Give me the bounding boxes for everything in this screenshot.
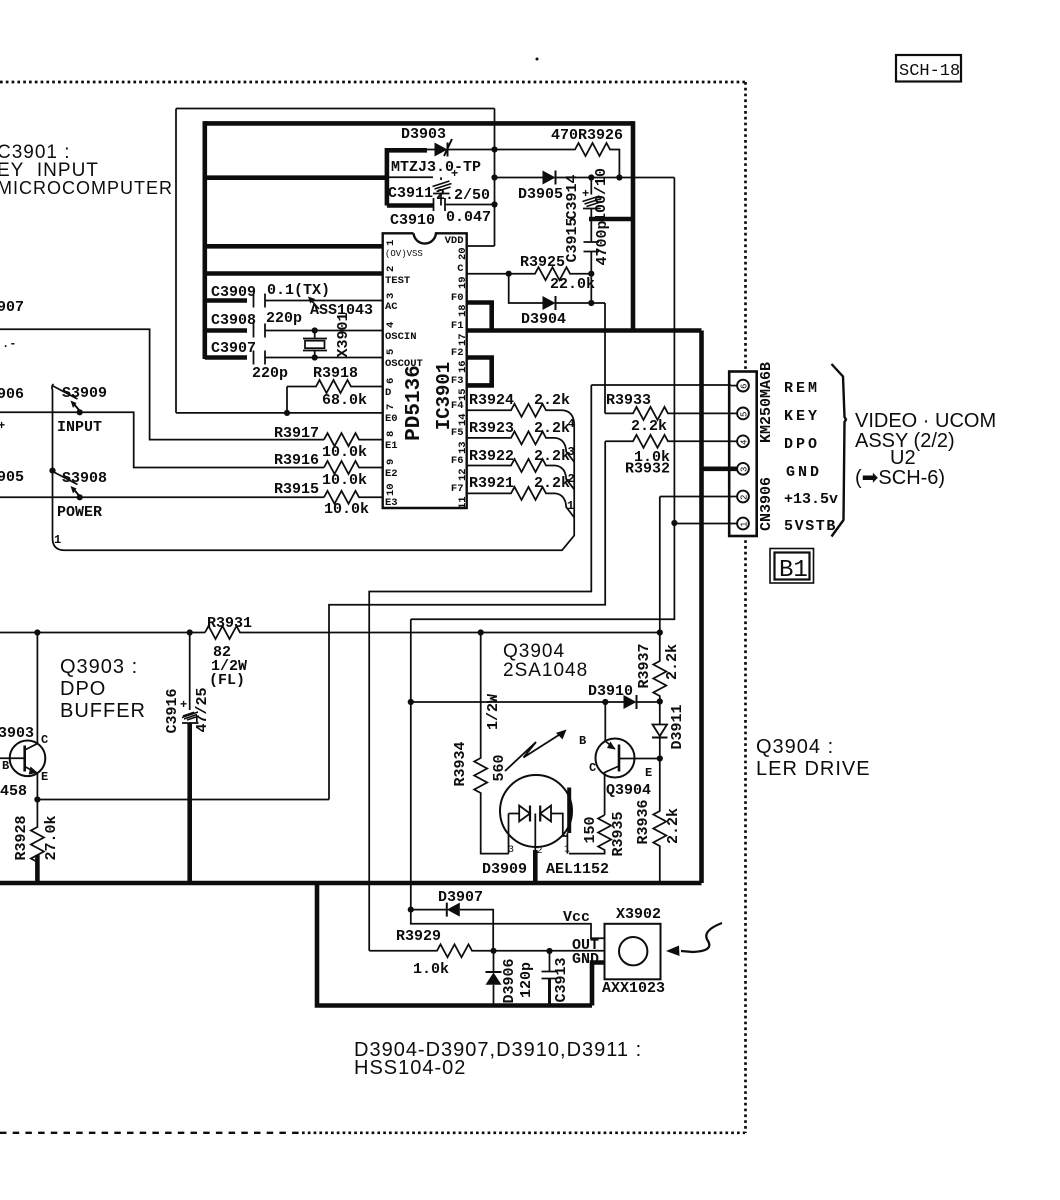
- svg-text:1: 1: [564, 845, 570, 856]
- svg-text:4: 4: [740, 440, 750, 445]
- svg-text:D3910: D3910: [588, 683, 633, 700]
- svg-text:R3925: R3925: [520, 254, 565, 271]
- svg-text:KEY: KEY: [784, 408, 820, 425]
- dotted border top: [0, 81, 745, 84]
- svg-text:E1: E1: [385, 440, 398, 452]
- svg-text:D3906: D3906: [501, 958, 518, 1003]
- heavy key bus: branch to MTZJ box: [205, 175, 387, 180]
- wire: VDD vertical at x=494.5: [494, 109, 496, 247]
- node: junction VDD/C3910 row: [491, 201, 497, 207]
- cut label 907: [0, 299, 24, 316]
- diode D3910: [588, 683, 660, 709]
- node: junction D3907 anode: [408, 907, 414, 913]
- svg-text:LER DRIVE: LER DRIVE: [756, 758, 871, 780]
- svg-text:+: +: [0, 419, 5, 433]
- svg-text:2.2k: 2.2k: [534, 448, 570, 465]
- connector pin 5 KEY: [731, 408, 750, 420]
- net name REM: [784, 380, 820, 397]
- svg-text:470R3926: 470R3926: [551, 127, 623, 144]
- svg-text:R3935: R3935: [610, 811, 627, 856]
- svg-text:X3902: X3902: [616, 906, 661, 923]
- svg-text:10.0k: 10.0k: [324, 501, 369, 518]
- svg-text:905: 905: [0, 469, 24, 486]
- svg-text:2.2k: 2.2k: [534, 420, 570, 437]
- wire: OUT row to X3902: [494, 950, 605, 952]
- connector pin 1 5VSTB: [731, 518, 750, 530]
- bottom note D3904-D3907,D3910,D3911 : HSS104-02: [354, 1039, 642, 1079]
- heavy wire: C3914 negative to GND vertical: [589, 217, 633, 222]
- capacitor C3913 120p: [518, 951, 570, 1006]
- svg-text:INPUT: INPUT: [57, 419, 102, 436]
- svg-text:R3933: R3933: [606, 392, 651, 409]
- IC3901 left pin names: [385, 249, 423, 509]
- diode D3907 (cathode left): [411, 889, 493, 951]
- svg-text:C3909: C3909: [211, 284, 256, 301]
- svg-text:KM250MA6B: KM250MA6B: [758, 362, 775, 443]
- svg-text:12: 12: [457, 468, 469, 481]
- heavy ground bus drop and lower run: [317, 883, 592, 1006]
- svg-text:19: 19: [457, 276, 469, 289]
- dotted border bottom: [0, 1132, 745, 1134]
- svg-text:R3918: R3918: [313, 365, 358, 382]
- svg-text:1: 1: [54, 533, 61, 547]
- wire: thin box left edge down to pin E0 row: [175, 109, 177, 413]
- wire: R3925 to D3904 vertical: [590, 274, 592, 303]
- capacitor C3907 220p: [211, 340, 384, 382]
- capacitor C3910 0.047: [390, 198, 495, 229]
- wire: 5VSTB stub to pin 1: [674, 523, 731, 525]
- node: junction pin C/R3925/D3904: [506, 271, 512, 277]
- svg-text:D3907: D3907: [438, 889, 483, 906]
- wire: LER box left edge (5VSTB feed): [410, 619, 412, 909]
- capacitor C3909 0.1(TX): [211, 282, 384, 308]
- svg-text:OSCOUT: OSCOUT: [385, 358, 423, 370]
- node: junction D3910/R3937/D3911: [657, 698, 663, 704]
- svg-text:D3911: D3911: [669, 704, 686, 749]
- svg-text:18: 18: [457, 304, 469, 317]
- wire: 5VSTB vertical from D3905 row: [673, 178, 675, 524]
- svg-text:+13.5v: +13.5v: [784, 491, 838, 508]
- svg-text:GND: GND: [572, 951, 599, 968]
- wire: VDD pin 20 stub: [467, 245, 495, 247]
- svg-text:R3915: R3915: [274, 481, 319, 498]
- svg-text:POWER: POWER: [57, 504, 102, 521]
- transistor Q3903 2SC1458: [0, 725, 48, 800]
- svg-text:S3909: S3909: [62, 385, 107, 402]
- svg-text:HSS104-02: HSS104-02: [354, 1057, 466, 1079]
- svg-text:1: 1: [385, 240, 397, 246]
- heavy wire: pin F2 to F3 ground U: [467, 358, 492, 386]
- svg-text:D3904: D3904: [521, 311, 566, 328]
- heavy key bus: stub to C3907: [205, 355, 247, 360]
- svg-text:R3929: R3929: [396, 928, 441, 945]
- heavy key bus: left vertical: [203, 121, 208, 359]
- svg-text:E: E: [645, 766, 652, 780]
- resistor R3932 1.0k on DPO row: [605, 435, 731, 478]
- capacitor C3914 100/10 electrolytic: [564, 168, 610, 222]
- crystal X3901 ASS1043: [303, 297, 373, 361]
- cut label plus: [0, 419, 5, 433]
- IC3901 right pin numbers 20-11: [457, 247, 469, 509]
- stray scan dot: [536, 58, 539, 61]
- svg-text:TEST: TEST: [385, 275, 410, 287]
- svg-text:AEL1152: AEL1152: [546, 861, 609, 878]
- svg-text:R3917: R3917: [274, 425, 319, 442]
- svg-text:150: 150: [582, 816, 599, 843]
- switch S3909 INPUT: [53, 385, 107, 436]
- svg-text:E3: E3: [385, 497, 398, 509]
- node: junction D3904/R3925 right: [588, 300, 594, 306]
- connector pin 2 +13.5v: [731, 491, 750, 503]
- svg-text:6: 6: [740, 384, 750, 389]
- resistor R3931 82 1/2W (FL): [205, 615, 660, 689]
- wire: S3907 key line entering left: [0, 329, 324, 439]
- svg-text:F7: F7: [451, 483, 464, 495]
- switch common vertical with hook: [52, 384, 54, 538]
- node: junction D3910/base row: [602, 699, 608, 705]
- svg-text:PD5136: PD5136: [403, 365, 426, 441]
- wire: 5VSTB down to LER box top: [411, 523, 675, 619]
- svg-text:.-: .-: [2, 337, 16, 351]
- svg-text:1.0k: 1.0k: [413, 961, 449, 978]
- diode D3905: [495, 171, 675, 204]
- net name KEY: [784, 408, 820, 425]
- wire: D3910 row: [411, 701, 624, 703]
- svg-text:C: C: [457, 263, 464, 275]
- svg-text:220p: 220p: [266, 310, 302, 327]
- svg-text:4: 4: [385, 322, 397, 328]
- node: junction R3931/R3934: [478, 629, 484, 635]
- svg-text:C3915: C3915: [564, 217, 581, 262]
- label MTZJ3.0-TP: [391, 159, 481, 176]
- svg-text:2.2k: 2.2k: [665, 808, 682, 844]
- wire: REM net routing to lower left: [369, 385, 591, 951]
- svg-text:F6: F6: [451, 455, 464, 467]
- svg-text:E: E: [41, 770, 48, 784]
- wire: 5VSTB down to D3907 and Vcc: [411, 910, 605, 939]
- svg-text:22.0k: 22.0k: [550, 276, 595, 293]
- wire: IC pin 19 C row: [467, 273, 509, 275]
- svg-text:F0: F0: [451, 292, 464, 304]
- heavy key bus: branch to pin 1 (OV)VSS: [205, 244, 384, 249]
- svg-text:458: 458: [0, 783, 27, 800]
- svg-text:10.0k: 10.0k: [322, 444, 367, 461]
- svg-text:10.0k: 10.0k: [322, 472, 367, 489]
- svg-text:D: D: [385, 387, 391, 399]
- heavy key bus: branch to pin 2 TEST: [205, 271, 384, 276]
- resistor R3916 10.0k on pin E2: [274, 452, 384, 489]
- svg-text:0.047: 0.047: [446, 209, 491, 226]
- wire: R3918 branch vertical: [286, 387, 288, 413]
- svg-text:3: 3: [508, 845, 514, 856]
- node: junction 5VSTB pin 1: [671, 520, 677, 526]
- resistor R3928 27.0k vertical: [13, 800, 60, 863]
- svg-text:2SA1048: 2SA1048: [503, 660, 588, 681]
- svg-text:MTZJ3.0-TP: MTZJ3.0-TP: [391, 159, 481, 176]
- switch S3908 POWER: [53, 470, 107, 521]
- svg-text:220p: 220p: [252, 365, 288, 382]
- heavy key bus: stub to C3908: [205, 328, 247, 333]
- node: junction OUT/C3913: [546, 948, 552, 954]
- svg-text:F1: F1: [451, 320, 464, 332]
- svg-text:F3: F3: [451, 375, 464, 387]
- svg-text:1: 1: [740, 522, 750, 527]
- svg-text:+: +: [451, 167, 458, 181]
- svg-text:OSCIN: OSCIN: [385, 331, 417, 343]
- node: junction VDD/D3905 row: [491, 174, 497, 180]
- svg-text:47/25: 47/25: [194, 687, 211, 732]
- svg-text:R3921: R3921: [469, 475, 514, 492]
- node: junction switch chain S3908: [49, 468, 55, 474]
- cut label 905: [0, 469, 24, 486]
- svg-text:17: 17: [457, 333, 469, 346]
- label KM250MA6B rotated: [758, 362, 775, 443]
- resistor R3925 22.0k: [509, 254, 595, 293]
- wire: +13.5v net from connector: [660, 496, 731, 498]
- capacitor C3911 2.2/50 electrolytic: [388, 167, 490, 206]
- svg-text:R3936: R3936: [635, 799, 652, 844]
- resistor R3922 2.2k on pin F6: [467, 445, 575, 490]
- svg-text:2.2k: 2.2k: [534, 392, 570, 409]
- diode D3906 vertical: [486, 951, 519, 1006]
- svg-text:C3913: C3913: [553, 957, 570, 1002]
- svg-text:DPO: DPO: [784, 436, 820, 453]
- connector pin 4 DPO: [731, 435, 750, 447]
- svg-text:5: 5: [740, 412, 750, 417]
- svg-text:3: 3: [740, 467, 750, 472]
- svg-text:R3924: R3924: [469, 392, 514, 409]
- connector CN3906 KM250MA6B body: [729, 372, 757, 537]
- svg-text:16: 16: [457, 360, 469, 373]
- IC3901 right pin names: [445, 235, 465, 495]
- svg-text:MICROCOMPUTER: MICROCOMPUTER: [0, 178, 173, 198]
- cut label 906: [0, 386, 24, 403]
- node: junction D3905/C3914: [588, 174, 594, 180]
- svg-text:BUFFER: BUFFER: [60, 700, 146, 722]
- wire: zener row inside box: [389, 176, 433, 178]
- svg-text:CN3906: CN3906: [758, 477, 775, 531]
- svg-text:VDD: VDD: [445, 235, 464, 247]
- resistor R3918 68.0k to pin D: [287, 365, 384, 409]
- wire: pin E0 row: [176, 412, 384, 414]
- svg-text:5VSTB: 5VSTB: [784, 518, 837, 535]
- resistor R3924 2.2k on pin F4: [53, 392, 575, 550]
- svg-text:2: 2: [568, 472, 575, 486]
- svg-text:C3908: C3908: [211, 312, 256, 329]
- svg-text:2.2/50: 2.2/50: [436, 187, 490, 204]
- svg-text:C3907: C3907: [211, 340, 256, 357]
- svg-text:R3934: R3934: [452, 741, 469, 786]
- svg-text:R3922: R3922: [469, 448, 514, 465]
- heavy MTZJ label box: bottom: [387, 203, 433, 208]
- svg-text:VIDEO · UCOM: VIDEO · UCOM: [855, 410, 996, 432]
- wire: thin box top edge (VDD net): [176, 108, 495, 110]
- svg-text:1: 1: [567, 499, 574, 513]
- svg-text:GND: GND: [786, 464, 822, 481]
- VIDEO UCOM ASSY destination text: [855, 410, 996, 489]
- wire: KEY net vertical D3904 to R3933: [604, 303, 606, 413]
- svg-text:R3923: R3923: [469, 420, 514, 437]
- node: junction Q3903 emitter/R3928: [34, 796, 40, 802]
- svg-text:8: 8: [385, 431, 397, 437]
- svg-text:D3909: D3909: [482, 861, 527, 878]
- svg-text:AXX1023: AXX1023: [602, 980, 665, 997]
- svg-text:5: 5: [385, 349, 397, 355]
- resistor R3915 10.0k on pin E3: [274, 481, 384, 518]
- svg-text:Q3904: Q3904: [503, 641, 565, 662]
- svg-text:X3901: X3901: [335, 312, 352, 357]
- heavy key bus: stub to C3909: [205, 298, 247, 303]
- heavy key bus: top line to GND vertical: [205, 121, 633, 126]
- resistor R3929 1.0k on OUT row: [369, 928, 493, 978]
- node: junction left edge / D3910 row: [408, 699, 414, 705]
- heavy ground bus bottom left: [0, 881, 702, 886]
- heavy wire: pin F1 GND line to connector column: [467, 328, 702, 333]
- svg-text:68.0k: 68.0k: [322, 392, 367, 409]
- svg-text:AC: AC: [385, 301, 398, 313]
- heavy wire: C3916 bottom to ground bus: [187, 724, 192, 884]
- svg-text:3903: 3903: [0, 725, 34, 742]
- svg-text:R3916: R3916: [274, 452, 319, 469]
- net name +13.5v: [784, 491, 838, 508]
- svg-text:2.2k: 2.2k: [664, 644, 681, 680]
- heavy wire: D3909 pin 2 to ground bus: [534, 814, 536, 884]
- node: junction R3925/C3915: [588, 271, 594, 277]
- svg-text:F5: F5: [451, 427, 464, 439]
- wire: Q3903 emitter row to DPO vertical: [37, 799, 329, 801]
- heavy wire: X3902 GND pin to ground: [592, 963, 605, 1006]
- svg-text:13: 13: [457, 441, 469, 454]
- wire bundle numeral 1 at right bend: [567, 499, 574, 513]
- resistor R3937 2.2k vertical: [636, 633, 681, 702]
- capacitor C3915 4700p: [564, 217, 611, 273]
- resistor R3934 560 1/2W vertical: [452, 633, 509, 854]
- node: junction R3931/C3916: [187, 629, 193, 635]
- svg-text:+: +: [180, 698, 187, 712]
- svg-text:10: 10: [385, 483, 397, 496]
- net name 5VSTB: [784, 518, 837, 535]
- cut label minus: [2, 337, 16, 351]
- svg-text:B: B: [2, 759, 9, 773]
- connector pin 6 REM: [731, 380, 750, 392]
- svg-text:4700p: 4700p: [594, 220, 611, 265]
- svg-text:3: 3: [568, 445, 575, 459]
- title text Q3904 LER DRIVE: [756, 736, 871, 780]
- resistor R3936 2.2k vertical: [635, 759, 682, 884]
- svg-text:R3937: R3937: [636, 643, 653, 688]
- wire: INPUT key line to R3916: [0, 412, 324, 467]
- svg-text:560: 560: [491, 754, 508, 781]
- svg-text:B1: B1: [779, 557, 808, 584]
- svg-text:3: 3: [385, 293, 397, 299]
- svg-text:+: +: [582, 187, 589, 201]
- svg-text:E0: E0: [385, 413, 398, 425]
- svg-text:REM: REM: [784, 380, 820, 397]
- node: junction VDD/D3903 row: [491, 146, 497, 152]
- svg-text:100/10: 100/10: [593, 168, 610, 222]
- svg-text:C3914: C3914: [564, 174, 581, 219]
- IR receiver X3902 AXX1023: [563, 906, 665, 997]
- svg-text:Q3904 :: Q3904 :: [756, 736, 834, 758]
- wire: +13.5v vertical to R3931 row: [659, 497, 661, 633]
- capacitor C3916 47/25 electrolytic: [164, 687, 211, 733]
- svg-text:D3903: D3903: [401, 126, 446, 143]
- svg-text:907: 907: [0, 299, 24, 316]
- wire: POWER key line to R3915: [0, 496, 324, 498]
- svg-text:4: 4: [568, 417, 575, 431]
- svg-text:U2: U2: [890, 447, 916, 469]
- IR wave arrow into X3902: [666, 923, 722, 956]
- heavy MTZJ label box: left: [385, 148, 390, 206]
- title text IC3901 KEY INPUT MICROCOMPUTER (cut at left edge): [0, 142, 173, 198]
- svg-text:C3910: C3910: [390, 212, 435, 229]
- wire bundle numeral 1 at left bend: [54, 533, 61, 547]
- svg-text:B: B: [579, 734, 586, 748]
- svg-text:F2: F2: [451, 347, 464, 359]
- svg-text:C3911: C3911: [388, 185, 433, 202]
- wire: REM row from connector: [591, 384, 731, 386]
- svg-text:(OV)VSS: (OV)VSS: [385, 249, 423, 259]
- label CN3906 rotated: [758, 477, 775, 531]
- svg-text:Q3904: Q3904: [606, 782, 651, 799]
- diode D3904: [509, 274, 605, 328]
- svg-text:C: C: [41, 733, 48, 747]
- node: junction E0/R3918: [284, 410, 290, 416]
- heavy wire: GND vertical from top bus: [631, 121, 636, 330]
- dotted border right: [744, 82, 747, 1133]
- svg-text:(FL): (FL): [209, 672, 245, 689]
- svg-text:1/2W: 1/2W: [485, 694, 502, 730]
- node: junction Q3904 emitter/D3911/R3936: [657, 755, 663, 761]
- B1 grid label double box: [770, 549, 814, 585]
- title text Q3904 2SA1048: [503, 641, 588, 681]
- resistor R3935 150 vertical: [569, 811, 627, 856]
- svg-text:11: 11: [457, 496, 469, 509]
- svg-text:IC3901: IC3901: [433, 362, 455, 430]
- title text Q3903 DPO BUFFER: [60, 656, 146, 722]
- svg-text:S3908: S3908: [62, 470, 107, 487]
- LED array D3909 AEL1152 circle: [482, 775, 609, 878]
- wire: Q3903 collector vertical: [36, 633, 38, 745]
- connector pin 3 GND: [702, 463, 750, 475]
- resistor R3926 470: [495, 127, 624, 178]
- wire: DPO net routing to Q3903 emitter: [329, 441, 605, 799]
- transistor Q3904 2SA1048: [579, 702, 660, 815]
- wire: C3916 vertical from R3931 row: [189, 633, 191, 711]
- svg-text:2: 2: [740, 495, 750, 500]
- capacitor C3908 220p: [211, 310, 384, 338]
- svg-text:D3905: D3905: [518, 186, 563, 203]
- node: junction R3929/D3907/D3906: [490, 948, 496, 954]
- resistor R3917 10.0k on pin E1: [274, 425, 384, 461]
- heavy MTZJ label box: top: [387, 148, 427, 153]
- node: junction D3905/R3926: [616, 174, 622, 180]
- IR emission arrow symbol: [505, 730, 567, 772]
- svg-text:2.2k: 2.2k: [534, 475, 570, 492]
- brace bracket for connector group: [832, 364, 847, 537]
- heavy wire: pin F0 to F1 ground U: [467, 303, 492, 331]
- svg-text:2: 2: [385, 266, 397, 272]
- svg-text:20: 20: [457, 247, 469, 260]
- node: junction R3931/Q3903 collector: [34, 629, 40, 635]
- svg-text:6: 6: [385, 378, 397, 384]
- svg-text:906: 906: [0, 386, 24, 403]
- resistor R3923 2.2k on pin F5: [467, 417, 575, 462]
- svg-text:0.1(TX): 0.1(TX): [267, 282, 330, 299]
- SCH-18 page reference box: [896, 55, 961, 82]
- svg-text:C: C: [589, 761, 596, 775]
- svg-text:120p: 120p: [518, 962, 535, 998]
